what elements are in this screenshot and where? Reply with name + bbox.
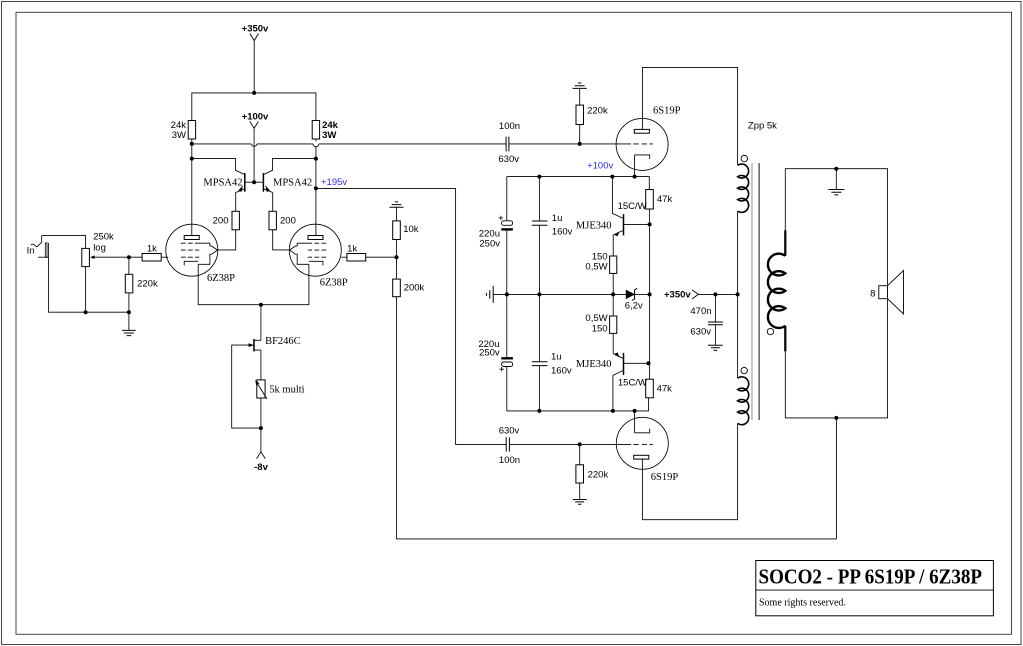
- wire right 1k to divider node: [366, 256, 397, 258]
- svg-text:-8v: -8v: [254, 462, 268, 473]
- potentiometer wiper arrow: [90, 255, 95, 259]
- wire 220k top to grid: [579, 88, 581, 143]
- svg-text:5k multi: 5k multi: [269, 385, 304, 396]
- wire left 24k to node: [191, 139, 193, 236]
- resistor 200 left: [232, 211, 239, 230]
- tube 6Z38P left: [166, 224, 218, 276]
- ground secondary: [828, 190, 844, 195]
- wire left column top 220u: [506, 177, 508, 295]
- capacitor 100n 630v bottom: [506, 437, 509, 451]
- wire left collector tie: [192, 159, 245, 175]
- resistor 24k right: [312, 121, 319, 140]
- svg-text:In: In: [27, 246, 35, 257]
- primary coil top: [738, 164, 749, 212]
- wire +350v bus: [192, 93, 316, 121]
- capacitor 220u 250v bottom (electrolytic): [500, 358, 513, 371]
- wire 220k input bottom: [128, 293, 130, 312]
- resistor 220k top right: [576, 105, 584, 124]
- capacitor 1u 160v top: [532, 221, 548, 225]
- svg-text:250v: 250v: [479, 238, 500, 249]
- resistor 5k multi body: [257, 380, 265, 398]
- svg-text:200: 200: [213, 216, 229, 227]
- wire 10k bottom: [396, 240, 398, 280]
- wire right 200 bottom to tube cathode tab: [273, 230, 290, 250]
- wire secondary ground stem: [835, 169, 837, 190]
- wire 5k bottom to -8v: [260, 398, 262, 452]
- wire driver bottom bus: [507, 398, 649, 411]
- input jack: [31, 236, 49, 258]
- resistor 47k bottom: [646, 379, 654, 398]
- wire right tube grid to 1k: [341, 256, 347, 258]
- speaker 8 ohm: [879, 271, 904, 314]
- wire 47k column top: [649, 209, 651, 379]
- supply arrow +100v top: [250, 122, 259, 129]
- ground 470n: [708, 345, 723, 350]
- wire pot bottom: [85, 267, 87, 313]
- phase dot primary bottom: [741, 367, 747, 373]
- svg-text:BF246C: BF246C: [265, 336, 301, 347]
- svg-text:0,5W: 0,5W: [585, 262, 607, 273]
- svg-text:6Z38P: 6Z38P: [320, 278, 348, 289]
- wire top MJE340 emitter lead: [613, 230, 623, 256]
- transistor MJE340 bottom: [614, 352, 623, 375]
- wire OPT center tap column: [737, 211, 739, 378]
- wire +350v drop: [253, 41, 255, 93]
- svg-text:160v: 160v: [551, 365, 572, 376]
- tube 6S19P bottom: [616, 417, 668, 469]
- title block divider: [756, 589, 994, 591]
- svg-text:3W: 3W: [172, 130, 186, 141]
- wire input jack top: [42, 236, 86, 249]
- secondary thick leads: [784, 230, 786, 351]
- resistor 150 0,5W top: [610, 256, 617, 273]
- tube 6S19P top: [616, 118, 668, 170]
- wire 1k to left tube grid: [161, 256, 168, 258]
- wire junction to 1k: [129, 257, 142, 274]
- ground input: [122, 330, 136, 335]
- wire 200k bottom to feedback: [397, 297, 837, 539]
- ground 220k bottom: [573, 500, 587, 505]
- transformer Zpp 5k: [738, 155, 786, 424]
- svg-text:+100v: +100v: [587, 160, 613, 171]
- wire bottom MJE340 collector: [613, 370, 624, 411]
- resistor 150 0,5W bottom: [610, 316, 617, 333]
- svg-text:+195v: +195v: [321, 177, 347, 188]
- resistor 47k top: [646, 190, 654, 210]
- wire 150 top to mid: [612, 273, 614, 294]
- chassis ground mid bus (rotated left): [486, 286, 493, 303]
- hop arc at +100v crossing: [251, 144, 257, 146]
- wire top grid from cap to 6S19P: [509, 143, 631, 145]
- svg-text:100n: 100n: [499, 121, 520, 132]
- wire bottom 6S19P plate loop: [642, 423, 737, 519]
- resistor 1k right: [347, 254, 366, 262]
- svg-text:Zpp 5k: Zpp 5k: [748, 120, 777, 131]
- wire JFET gate loop: [232, 345, 261, 428]
- wire bottom grid: [509, 443, 631, 445]
- svg-text:250k: 250k: [93, 231, 114, 242]
- svg-text:MPSA42: MPSA42: [203, 177, 242, 188]
- svg-text:15C/W: 15C/W: [618, 201, 647, 212]
- wire top MJE340 collector: [612, 177, 623, 219]
- resistor 24k left: [188, 121, 195, 140]
- transistor BF246C (JFET): [249, 339, 261, 352]
- resistor 200k: [393, 279, 401, 297]
- wire 10k ground stem: [396, 207, 398, 221]
- svg-text:6,2v: 6,2v: [625, 301, 643, 312]
- svg-text:3W: 3W: [322, 130, 336, 141]
- wire bottom 6S19P cathode: [634, 411, 636, 433]
- svg-text:200: 200: [280, 216, 296, 227]
- wire bottom MJE340 base: [624, 362, 649, 364]
- transistor MPSA42 left: [238, 173, 245, 192]
- wire 1u bottom column: [538, 294, 540, 411]
- wire MPSA42 bases: [245, 181, 264, 183]
- svg-text:+350v: +350v: [664, 289, 691, 300]
- capacitor 1u 160v bottom: [532, 362, 548, 366]
- primary coil bottom: [738, 377, 749, 425]
- phase dot primary top: [741, 155, 747, 161]
- wire bottom MJE340 emitter: [613, 354, 623, 359]
- wire +195v node branch: [316, 188, 506, 444]
- wire top coupling y=144 with hops: [192, 143, 506, 145]
- resistor 220k bottom right: [576, 465, 584, 483]
- svg-text:1u: 1u: [551, 352, 562, 363]
- svg-text:150: 150: [592, 324, 608, 335]
- svg-text:630v: 630v: [690, 327, 711, 338]
- svg-text:1k: 1k: [347, 244, 357, 255]
- svg-text:+100v: +100v: [242, 112, 269, 123]
- svg-text:470n: 470n: [690, 306, 711, 317]
- wire secondary loop: [785, 169, 887, 418]
- transistor MJE340 top: [614, 214, 623, 236]
- svg-text:0,5W: 0,5W: [585, 313, 607, 324]
- wire right emitter to 200: [263, 189, 272, 212]
- wire +100v drop: [253, 128, 255, 182]
- resistor 1k left: [142, 254, 161, 262]
- wire driver top bus: [507, 177, 650, 190]
- wire top MJE340 base: [624, 223, 650, 225]
- svg-text:200k: 200k: [404, 283, 425, 294]
- resistor 220k input: [125, 274, 133, 293]
- core line 2: [758, 163, 760, 420]
- core line 1: [751, 163, 753, 420]
- phase dot secondary: [767, 328, 773, 334]
- capacitor 470n 630v: [708, 322, 723, 325]
- svg-text:MJE340: MJE340: [576, 359, 612, 370]
- svg-text:6S19P: 6S19P: [653, 106, 681, 117]
- svg-text:220k: 220k: [137, 279, 158, 290]
- svg-text:47k: 47k: [657, 384, 673, 395]
- wire 220k bottom leads: [579, 444, 581, 499]
- capacitor 220u 250v top (electrolytic): [499, 216, 513, 230]
- wire left column bottom 220u: [506, 294, 508, 411]
- wire right 24k to node: [315, 139, 317, 236]
- svg-text:+350v: +350v: [242, 24, 269, 35]
- wire right collector tie: [263, 159, 316, 175]
- svg-text:6S19P: 6S19P: [651, 472, 679, 483]
- wire tail to JFET drain: [260, 305, 262, 341]
- tube 6Z38P right: [289, 224, 341, 276]
- wire jack sleeve down and bottom bus: [49, 243, 129, 331]
- svg-text:MPSA42: MPSA42: [273, 177, 312, 188]
- hop arc at right 24k crossing: [313, 144, 319, 147]
- trimmer arrow 5k multi: [257, 383, 267, 399]
- wire tubes tail: [198, 264, 309, 304]
- svg-text:1u: 1u: [552, 213, 563, 224]
- ground above 220k top (inverted): [573, 83, 587, 88]
- zener diode 6,2v: [626, 288, 637, 300]
- svg-text:MJE340: MJE340: [576, 221, 612, 232]
- potentiometer 250k log body: [82, 248, 90, 266]
- svg-text:Some rights reserved.: Some rights reserved.: [759, 598, 846, 609]
- svg-text:220k: 220k: [588, 470, 609, 481]
- svg-text:1k: 1k: [147, 243, 157, 254]
- svg-text:250v: 250v: [479, 348, 500, 359]
- wire 1u top column: [538, 177, 540, 295]
- svg-text:47k: 47k: [657, 194, 673, 205]
- supply arrow +350v top: [250, 34, 259, 41]
- svg-text:160v: 160v: [552, 227, 573, 238]
- wire 150 bottom leads: [612, 294, 614, 354]
- svg-text:220k: 220k: [587, 106, 608, 117]
- title block box: [756, 561, 994, 616]
- wire 470n leads: [714, 294, 716, 345]
- secondary coil: [768, 254, 785, 328]
- svg-text:630v: 630v: [499, 426, 520, 437]
- svg-text:8: 8: [870, 289, 875, 300]
- wire left 200 bottom to tube cathode tab: [218, 230, 236, 250]
- svg-text:6Z38P: 6Z38P: [207, 273, 235, 284]
- wire top 6S19P cathode to bus: [634, 155, 636, 177]
- transistor MPSA42 right: [263, 173, 270, 192]
- svg-text:log: log: [93, 242, 106, 253]
- wire +350v mid feed: [698, 293, 737, 295]
- resistor 10k: [393, 221, 401, 240]
- wire JFET source to 5k: [260, 350, 262, 380]
- ground above 10k (inverted): [390, 202, 404, 207]
- svg-text:10k: 10k: [403, 224, 419, 235]
- svg-text:15C/W: 15C/W: [618, 378, 647, 389]
- wire left emitter to 200: [236, 189, 245, 212]
- svg-text:SOCO2 - PP 6S19P / 6Z38P: SOCO2 - PP 6S19P / 6Z38P: [759, 565, 983, 589]
- wire top 6S19P plate to OPT: [642, 67, 737, 165]
- supply arrow -8v: [257, 452, 266, 459]
- capacitor 100n 630v top: [506, 137, 509, 152]
- wire pot wiper junction: [95, 256, 129, 258]
- resistor 200 right: [269, 211, 276, 230]
- svg-text:100n: 100n: [499, 455, 520, 466]
- wire mid bus: [493, 293, 649, 295]
- supply arrow +350v mid: [692, 290, 698, 299]
- svg-text:630v: 630v: [498, 154, 519, 165]
